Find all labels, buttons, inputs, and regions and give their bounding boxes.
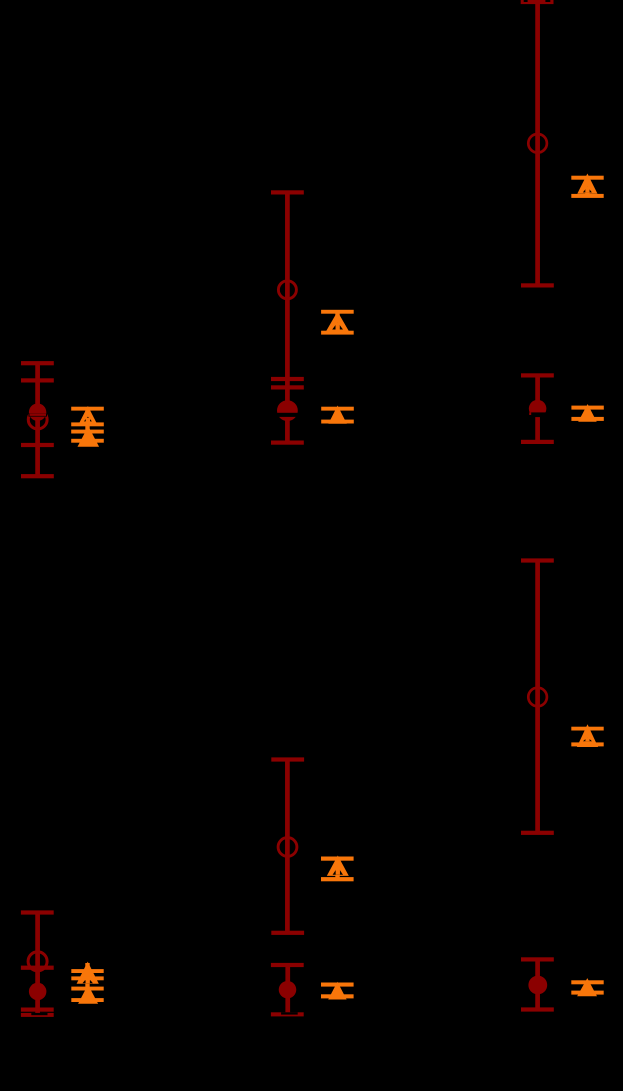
- bottom-right red lower errorbar: [521, 957, 554, 1011]
- top-left orange filled triangle: [78, 426, 100, 447]
- top-right orange open triangle: [577, 174, 597, 194]
- top-middle orange open triangle: [326, 312, 349, 332]
- top-left red errorbar series: [21, 361, 54, 478]
- bottom-left orange filled triangle: [78, 985, 98, 1004]
- top-middle red upper errorbar: [271, 190, 304, 444]
- top-right red lower errorbar: [521, 373, 554, 444]
- bottom-left orange open triangle: [77, 962, 99, 984]
- bottom-left orange errorbar series: [85, 963, 89, 1000]
- bottom-middle red lower errorbar: [271, 963, 304, 1016]
- top-left orange triangle hole: [84, 417, 92, 422]
- bottom-middle orange upper errorbar: [335, 859, 339, 880]
- bottom-left black notch on bottom cap: [31, 1013, 47, 1015]
- top-middle red open ring behind band: [278, 402, 296, 420]
- top-left orange errorbar series: [85, 409, 89, 441]
- top-right orange lower errorbar: [571, 406, 603, 421]
- top-right orange upper errorbar: [585, 178, 589, 196]
- top-right orange triangle hole: [583, 187, 592, 193]
- wire: [35, 363, 40, 476]
- top-right circle left sliver: [529, 412, 531, 415]
- bottom-left orange triangle hole: [83, 977, 93, 983]
- bottom-right red upper errorbar: [521, 558, 554, 835]
- bottom-right orange filled triangle: [577, 978, 597, 996]
- top-middle orange lower errorbar: [321, 407, 354, 424]
- top-left black band: [29, 413, 48, 416]
- bottom-right red open circle marker: [528, 688, 547, 707]
- bottom-middle orange lower errorbar: [321, 983, 354, 999]
- top-left red small cap inside circle: [30, 414, 47, 416]
- top-left red open circle marker: [28, 410, 47, 429]
- top-left orange open triangle: [79, 406, 98, 424]
- bottom-middle black notch on bottom cap: [281, 1012, 298, 1014]
- top-right orange filled triangle: [578, 404, 597, 422]
- bottom-right orange open triangle: [577, 724, 598, 747]
- bottom-middle red upper errorbar: [271, 757, 304, 935]
- bottom-middle orange small filled triangle: [328, 982, 346, 1000]
- top-middle black band over circle: [277, 413, 299, 417]
- bottom-right orange triangle hole: [583, 737, 592, 741]
- bottom-middle red open circle marker: [278, 838, 297, 857]
- top-right red filled circle marker: [529, 400, 547, 418]
- top-right black band over circle: [528, 412, 548, 417]
- bottom-right orange lower errorbar: [571, 980, 603, 994]
- top-middle orange small filled triangle: [328, 406, 346, 424]
- bottom-left red errorbar series: [21, 910, 54, 1017]
- bottom-middle orange triangle hole: [333, 867, 343, 875]
- top-middle red open circle marker: [278, 281, 296, 299]
- top-right red open circle marker: [528, 134, 547, 153]
- top-middle red filled circle marker: [279, 401, 297, 419]
- bottom-left red open circle marker: [28, 952, 47, 971]
- bottom-right orange upper errorbar: [585, 729, 589, 745]
- top-right black notches on top cap: [524, 0, 528, 2]
- bottom-middle orange open triangle: [327, 856, 349, 876]
- top-middle orange triangle hole: [332, 322, 343, 329]
- top-middle orange upper errorbar: [335, 312, 339, 333]
- top-right red upper errorbar: [521, 0, 554, 288]
